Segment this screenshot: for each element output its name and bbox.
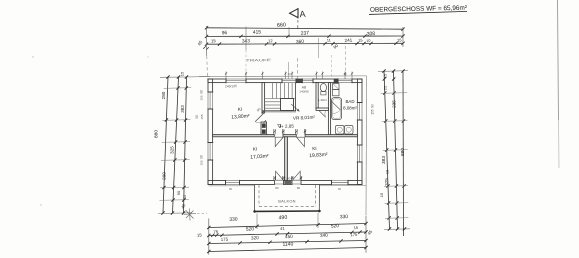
svg-text:10: 10 bbox=[386, 170, 390, 174]
svg-text:90: 90 bbox=[200, 155, 204, 159]
svg-text:320: 320 bbox=[251, 235, 259, 241]
svg-text:415: 415 bbox=[253, 29, 262, 35]
svg-text:175: 175 bbox=[350, 232, 358, 238]
svg-text:330: 330 bbox=[340, 214, 349, 220]
svg-text:155: 155 bbox=[200, 114, 204, 119]
svg-text:10: 10 bbox=[344, 72, 347, 76]
svg-text:175: 175 bbox=[221, 237, 229, 243]
svg-text:280: 280 bbox=[161, 91, 166, 99]
svg-text:8,08m²: 8,08m² bbox=[343, 105, 357, 110]
svg-text:140/90: 140/90 bbox=[299, 90, 309, 94]
svg-text:A: A bbox=[299, 9, 306, 19]
svg-text:10: 10 bbox=[288, 72, 291, 76]
svg-text:BAD: BAD bbox=[345, 99, 354, 104]
svg-text:880: 880 bbox=[400, 148, 406, 156]
svg-text:330: 330 bbox=[229, 216, 238, 222]
svg-text:15: 15 bbox=[180, 71, 185, 76]
svg-text:15: 15 bbox=[383, 73, 388, 78]
svg-text:90: 90 bbox=[371, 104, 375, 108]
svg-text:+ 2,85: + 2,85 bbox=[281, 123, 295, 129]
svg-text:235: 235 bbox=[392, 100, 397, 108]
svg-text:25: 25 bbox=[383, 85, 388, 90]
svg-text:10: 10 bbox=[366, 39, 370, 43]
svg-text:15: 15 bbox=[183, 195, 187, 199]
svg-text:660: 660 bbox=[277, 22, 286, 28]
svg-text:360: 360 bbox=[296, 39, 305, 45]
svg-text:96: 96 bbox=[222, 30, 228, 36]
svg-text:200: 200 bbox=[162, 172, 167, 180]
svg-text:450: 450 bbox=[285, 234, 293, 240]
svg-text:11: 11 bbox=[327, 38, 331, 42]
svg-text:1,40m²: 1,40m² bbox=[318, 98, 327, 102]
svg-text:160: 160 bbox=[285, 176, 291, 180]
svg-text:15: 15 bbox=[358, 38, 363, 42]
svg-text:520: 520 bbox=[246, 226, 255, 233]
svg-text:308: 308 bbox=[367, 31, 376, 38]
svg-text:KI: KI bbox=[253, 146, 258, 151]
svg-text:KI: KI bbox=[238, 107, 243, 112]
svg-text:90: 90 bbox=[229, 187, 233, 191]
svg-text:325: 325 bbox=[384, 178, 389, 186]
svg-text:383: 383 bbox=[180, 105, 185, 113]
svg-text:237: 237 bbox=[301, 30, 310, 37]
svg-text:340: 340 bbox=[320, 233, 328, 239]
svg-text:BALKON: BALKON bbox=[278, 198, 296, 203]
svg-text:155: 155 bbox=[200, 95, 204, 100]
svg-text:241: 241 bbox=[344, 38, 352, 44]
svg-text:155: 155 bbox=[200, 160, 204, 165]
svg-text:240/135: 240/135 bbox=[225, 84, 237, 88]
svg-text:80: 80 bbox=[297, 186, 301, 190]
svg-text:90: 90 bbox=[338, 187, 342, 191]
svg-text:1140: 1140 bbox=[282, 241, 293, 248]
svg-text:520: 520 bbox=[331, 223, 340, 230]
svg-text:90: 90 bbox=[176, 190, 181, 195]
svg-text:155: 155 bbox=[371, 109, 375, 115]
svg-text:880: 880 bbox=[154, 130, 160, 138]
svg-text:15: 15 bbox=[379, 192, 384, 197]
svg-text:KI: KI bbox=[312, 146, 317, 151]
svg-text:490: 490 bbox=[278, 215, 287, 221]
svg-text:383: 383 bbox=[381, 156, 387, 164]
svg-text:90: 90 bbox=[195, 115, 199, 119]
svg-text:TRAUFE: TRAUFE bbox=[246, 58, 271, 62]
svg-text:15: 15 bbox=[354, 226, 359, 230]
svg-text:90: 90 bbox=[200, 90, 204, 94]
svg-text:80: 80 bbox=[275, 186, 279, 190]
svg-text:325: 325 bbox=[170, 146, 175, 154]
